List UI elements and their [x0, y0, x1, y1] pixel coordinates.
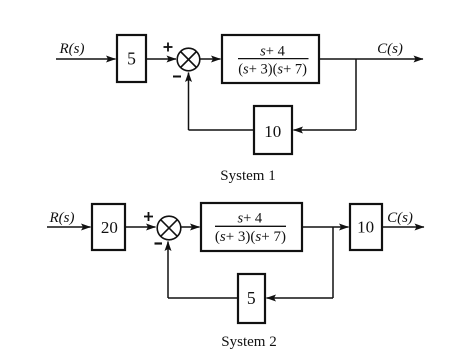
svg-text:20: 20 — [101, 218, 118, 237]
svg-text:10: 10 — [264, 122, 281, 141]
svg-text:R(s): R(s) — [59, 41, 85, 57]
wire plant 2 to block 10 — [302, 226, 349, 228]
svg-text:5: 5 — [127, 49, 136, 69]
svg-text:(s+ 3)(s+ 7): (s+ 3)(s+ 7) — [238, 61, 307, 77]
block 5 (feedback gain) — [238, 274, 265, 323]
caption System 2 — [221, 334, 276, 350]
caption System 1 — [220, 168, 275, 184]
summing junction S2 — [157, 216, 181, 240]
wire block 20 to summing junction 2 — [125, 226, 156, 228]
svg-text:C(s): C(s) — [377, 41, 403, 57]
minus sign 2 — [155, 242, 163, 244]
block 10 (output gain) — [350, 204, 382, 250]
svg-text:(s+ 3)(s+ 7): (s+ 3)(s+ 7) — [215, 229, 286, 245]
block 10 (feedback gain) — [254, 106, 292, 154]
wire output C(s) 2 — [382, 226, 424, 228]
wire tap to feedback block 5 — [267, 297, 334, 299]
wire input R(s) to block 20 — [47, 226, 91, 228]
wire feedback block to left corner — [189, 129, 255, 131]
svg-text:10: 10 — [357, 218, 374, 237]
node label R(s) 2 — [49, 210, 75, 226]
plus sign — [164, 43, 173, 52]
svg-text:R(s): R(s) — [49, 210, 75, 226]
wire summing junction to plant block — [200, 58, 221, 60]
block (s+4)/((s+3)(s+7)) plant G1 — [222, 35, 319, 83]
block (s+4)/((s+3)(s+7)) plant G2 — [201, 203, 302, 251]
svg-text:5: 5 — [247, 288, 256, 308]
svg-text:System 1: System 1 — [220, 168, 275, 184]
wire output C(s) — [319, 58, 423, 60]
wire up into summing junction 2 — [167, 242, 169, 299]
block 5 (gain) — [117, 35, 146, 82]
svg-text:C(s): C(s) — [387, 210, 413, 226]
wire block 5 to summing junction — [147, 58, 176, 60]
svg-text:s+ 4: s+ 4 — [260, 44, 285, 60]
node label C(s) 2 — [387, 210, 413, 226]
summing junction S1 — [177, 48, 200, 71]
minus sign — [173, 76, 181, 78]
block 20 (gain) — [92, 204, 125, 250]
wire tap down from node between plant and 10 — [332, 227, 334, 298]
node label R(s) — [59, 41, 85, 57]
wire input R(s) to block 5 — [56, 58, 116, 60]
node label C(s) — [377, 41, 403, 57]
svg-text:System 2: System 2 — [221, 334, 276, 350]
svg-text:s+ 4: s+ 4 — [237, 210, 262, 226]
wire tap down from output node — [355, 59, 357, 130]
wire tap to feedback block 10 — [294, 129, 357, 131]
plus sign 2 — [144, 212, 153, 221]
wire up into summing junction — [188, 73, 190, 131]
wire summing junction 2 to plant block 2 — [181, 226, 200, 228]
wire feedback block 5 to left corner 2 — [168, 297, 238, 299]
